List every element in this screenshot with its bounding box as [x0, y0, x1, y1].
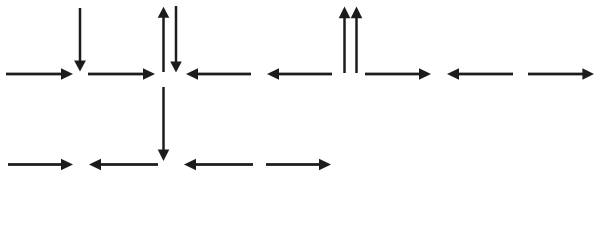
arrow left K	[447, 68, 513, 80]
arrow up I (double up, right)	[351, 7, 363, 74]
arrow up D (junction 2, left vertical)	[158, 7, 170, 72]
arrow down E (junction 2, right vertical)	[170, 6, 182, 73]
arrow left O (bottom row)	[89, 159, 158, 171]
arrow down B (into junction 1)	[74, 8, 86, 72]
arrow up H (double up, left)	[339, 7, 351, 74]
arrow left P (bottom row)	[184, 159, 253, 171]
arrow right Q (bottom row, right)	[266, 159, 331, 171]
arrow right L (top row, far right)	[528, 68, 594, 80]
arrow down M (connector from junction 2 to bottom row)	[158, 87, 170, 161]
arrow right C (into junction 2)	[88, 68, 155, 80]
arrow right J	[365, 68, 431, 80]
arrow left F (out of junction 2)	[186, 68, 251, 80]
arrow right N (bottom row, far left)	[8, 159, 73, 171]
arrow right A (top row, far left)	[6, 68, 73, 80]
arrow left G (toward double up arrows)	[267, 68, 332, 80]
